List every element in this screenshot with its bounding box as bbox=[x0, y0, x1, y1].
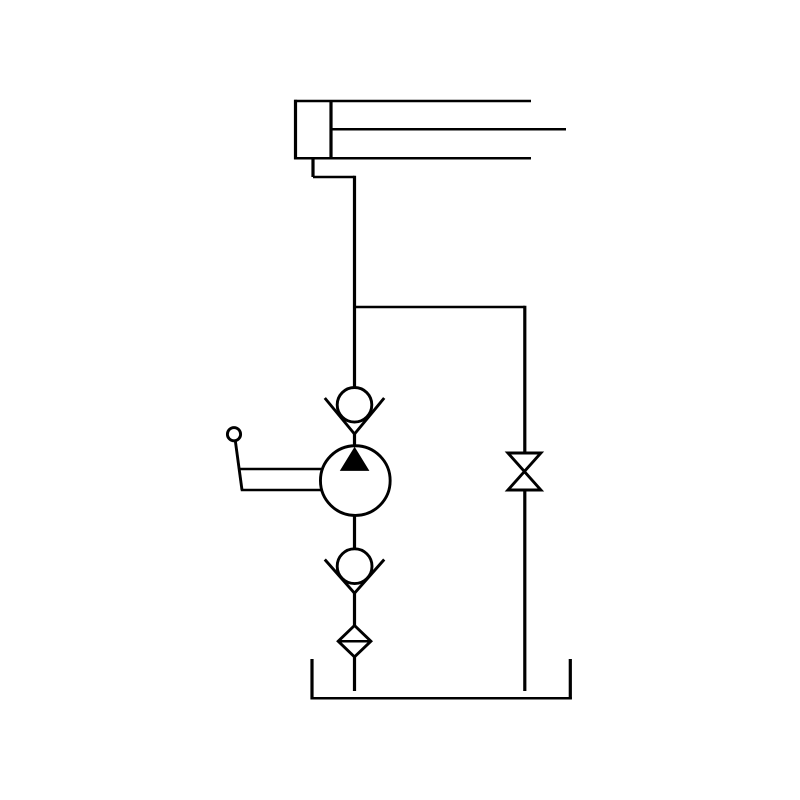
wire: pump to check valve CV2 bbox=[353, 515, 356, 549]
tank bottom bbox=[311, 697, 572, 700]
hydraulic cylinder body left cap bbox=[294, 100, 297, 160]
wire: branch to right from T-junction bbox=[355, 306, 525, 309]
check valve CV1 seat bbox=[325, 398, 384, 434]
wire: main vertical line down to check valve CV1 bbox=[353, 176, 356, 388]
wire: CV2 to filter bbox=[353, 592, 356, 627]
hydraulic cylinder body bottom wall bbox=[294, 157, 531, 160]
hand pump P1 flow triangle bbox=[340, 447, 370, 471]
pump lever slanted link bbox=[235, 441, 242, 490]
wire: cylinder port drop bbox=[311, 158, 314, 177]
wire: right branch down to shut-off valve bbox=[523, 306, 526, 454]
check valve CV2 ball bbox=[337, 549, 372, 584]
shut-off valve V1 lower triangle bbox=[508, 472, 541, 491]
wire: CV1 to pump bbox=[353, 433, 356, 447]
hydraulic cylinder body top wall bbox=[294, 100, 531, 103]
wire: port step horizontal bbox=[313, 176, 355, 179]
tank left wall bbox=[310, 659, 313, 699]
pump lever handle bottom edge bbox=[241, 489, 322, 492]
shut-off valve V1 upper triangle bbox=[508, 453, 541, 472]
wire: filter down into tank bbox=[353, 656, 356, 691]
pump lever knob bbox=[227, 428, 240, 441]
hand pump P1 body bbox=[320, 446, 390, 516]
pump lever handle top edge bbox=[240, 468, 322, 471]
filter F1 element line bbox=[338, 640, 371, 643]
check valve CV2 seat bbox=[325, 560, 384, 594]
tank right wall bbox=[569, 659, 572, 699]
check valve CV1 ball bbox=[337, 388, 372, 423]
wire: shut-off valve down to tank bbox=[523, 490, 526, 691]
filter F1 diamond bbox=[338, 626, 371, 657]
cylinder piston bbox=[329, 101, 332, 158]
cylinder rod bbox=[331, 128, 566, 131]
